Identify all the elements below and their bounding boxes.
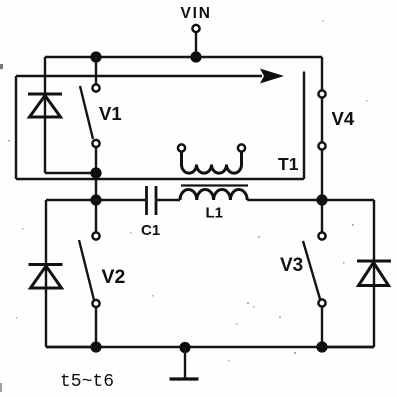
switch V4 bottom contact (318, 142, 325, 149)
junction dot VIN on top rail (190, 51, 201, 62)
scan artifact left edge lower mark (0, 383, 2, 392)
transformer T1 secondary left terminal (178, 144, 185, 151)
wire VIN lead (195, 33, 197, 58)
current loop box right edge (303, 72, 305, 180)
transformer T1 secondary right lead (240, 152, 243, 165)
wire mid node to C1 (96, 199, 145, 201)
wire mid node to left lower diode (46, 199, 96, 201)
junction dot ground node (179, 342, 190, 353)
diode D1 (top-left) cathode bar (28, 93, 62, 96)
svg-text:V2: V2 (102, 266, 126, 288)
svg-text:C1: C1 (141, 222, 160, 239)
wire L1 to mid-right node (247, 199, 322, 201)
switch V1 top contact (92, 84, 99, 91)
ground bar (170, 377, 199, 380)
wire V1 lower lead (95, 147, 97, 173)
current flow arrowhead (260, 69, 284, 84)
junction dot V3 bottom node (316, 341, 327, 352)
svg-text:T1: T1 (278, 154, 299, 174)
wire V1 upper lead (95, 57, 97, 85)
inductor L1 (T1 primary) winding (180, 189, 247, 200)
switch V1 blade (80, 86, 93, 139)
switch V1 bottom contact (92, 140, 99, 147)
wire V1 node to mid node (95, 173, 97, 200)
current loop box left edge (15, 76, 17, 179)
transformer T1 core bar (181, 184, 248, 186)
transformer T1 secondary winding (182, 165, 242, 174)
switch V4 blade (closed) (321, 98, 323, 143)
switch V3 top contact (318, 232, 325, 239)
transformer T1 secondary right terminal (238, 144, 245, 151)
wire left diode branch lower lead (45, 172, 96, 174)
svg-text:V3: V3 (280, 255, 303, 276)
diode D1 triangle (30, 96, 61, 118)
junction dot mid-left node (90, 194, 101, 205)
node VIN terminal (192, 25, 199, 32)
wire left lower diode lower lead (46, 346, 96, 348)
switch V3 bottom contact (318, 299, 325, 306)
svg-text:V4: V4 (332, 108, 355, 129)
wire V2 lower lead (95, 307, 97, 347)
diode D3 triangle (31, 266, 62, 288)
svg-text:V1: V1 (99, 103, 122, 124)
current loop box top edge (16, 75, 262, 77)
svg-text:L1: L1 (206, 205, 224, 222)
wire V3 upper lead (321, 200, 323, 233)
wire top rail right corner to V4 (321, 57, 323, 91)
diode D2 triangle (359, 263, 389, 286)
svg-text:VIN: VIN (181, 5, 212, 22)
wire bottom rail (46, 346, 374, 348)
transformer T1 secondary left lead (180, 152, 183, 165)
ground stem (184, 347, 186, 379)
junction dot V2 bottom node (90, 341, 101, 352)
wire V2 upper lead (95, 200, 97, 233)
scan artifact left edge mark (0, 64, 3, 69)
junction dot mid-right node (316, 194, 327, 205)
switch V4 top contact (318, 90, 325, 97)
wire right diode branch upper lead (373, 200, 375, 347)
wire V3 lower lead (321, 307, 323, 348)
wire left diode branch upper lead (44, 57, 46, 173)
switch V2 bottom contact (92, 300, 99, 307)
switch V2 blade (79, 240, 94, 300)
junction dot top rail / V1 branch (90, 51, 101, 62)
switch V3 blade (303, 241, 320, 299)
switch V2 top contact (92, 232, 99, 239)
wire top rail (45, 56, 322, 58)
wire C1 to L1 (158, 199, 181, 201)
wire mid-right node to right diode branch (322, 199, 374, 201)
svg-text:t5~t6: t5~t6 (60, 372, 114, 392)
diode D2 (right) cathode bar (357, 260, 391, 263)
wire left lower diode upper lead (45, 200, 47, 347)
wire V4 lower lead (321, 150, 323, 201)
scan noise specks (8, 20, 368, 362)
capacitor C1 right plate (155, 186, 158, 215)
current loop box bottom edge (transformer core line) (16, 178, 304, 180)
wire right diode branch lower lead (322, 346, 374, 348)
capacitor C1 left plate (145, 186, 148, 215)
diode D3 (bottom-left) cathode bar (29, 263, 63, 266)
junction dot V1 bottom node (90, 167, 101, 178)
